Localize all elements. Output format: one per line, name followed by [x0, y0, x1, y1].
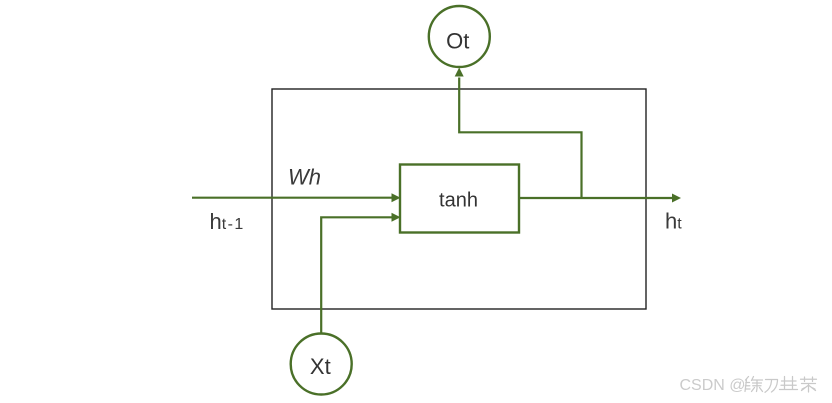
svg-text:CSDN @: CSDN @: [680, 377, 746, 394]
svg-text:ht-1: ht-1: [210, 209, 245, 234]
arrowhead into tanh (upper): [392, 193, 401, 202]
svg-text:Wh: Wh: [288, 164, 321, 189]
outer cell box: [272, 89, 646, 309]
glyph jiu: [780, 377, 798, 390]
wire: from Xt up and right into tanh: [321, 217, 392, 332]
svg-text:ht: ht: [665, 209, 682, 234]
svg-text:Xt: Xt: [310, 354, 331, 379]
svg-text:Ot: Ot: [446, 29, 469, 54]
watermark CJK glyphs (drawn strokes): [745, 377, 817, 393]
watermark CSDN @: [680, 377, 746, 394]
wire: tanh output to ht arrow: [519, 197, 673, 199]
glyph lian: [745, 377, 763, 392]
node Xt circle: [291, 334, 352, 395]
glyph dao: [765, 380, 778, 393]
glyph cai: [801, 377, 817, 392]
arrowhead into Ot: [455, 68, 464, 77]
wire: branch up to Ot: [459, 78, 581, 199]
svg-text:tanh: tanh: [439, 190, 478, 212]
arrowhead at ht: [672, 194, 681, 203]
node Ot circle: [429, 6, 490, 67]
tanh activation box: [400, 165, 519, 233]
arrowhead into tanh (lower): [392, 213, 401, 222]
wire: input h(t-1) horizontal line: [192, 197, 393, 199]
